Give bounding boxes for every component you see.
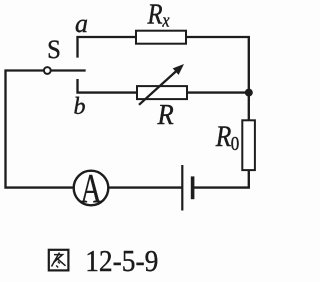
svg-text:a: a: [75, 9, 88, 38]
svg-text:b: b: [74, 94, 86, 120]
svg-text:12-5-9: 12-5-9: [85, 245, 158, 279]
svg-text:x: x: [161, 9, 169, 31]
svg-text:0: 0: [231, 133, 240, 156]
svg-text:A: A: [80, 165, 101, 211]
svg-text:R: R: [147, 0, 163, 30]
svg-text:S: S: [47, 35, 61, 64]
svg-text:R: R: [215, 120, 231, 153]
svg-text:R: R: [157, 99, 175, 130]
